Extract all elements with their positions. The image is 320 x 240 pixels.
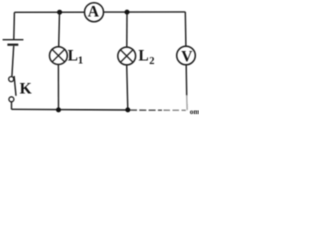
- svg-text:1: 1: [78, 56, 83, 67]
- svg-text:2: 2: [149, 56, 154, 67]
- wire right vertical upper (corner to voltmeter): [184, 12, 187, 46]
- wire L2 branch lower: [127, 65, 128, 110]
- wire L2 branch upper: [126, 12, 128, 47]
- svg-text:L: L: [138, 48, 148, 65]
- node top junction L1: [57, 10, 62, 15]
- svg-text:L: L: [68, 48, 78, 65]
- lamp L2 cross: [121, 50, 133, 62]
- battery short plate (-): [7, 44, 18, 46]
- node bottom junction L2: [125, 107, 130, 112]
- lamp L2 circle: [118, 47, 136, 65]
- wire battery to switch: [12, 46, 14, 77]
- wire faded bottom-right corner: [186, 104, 188, 110]
- switch K lower terminal circle: [9, 97, 14, 102]
- lamp L1 cross: [52, 49, 64, 61]
- wire faded right lower segment: [186, 95, 188, 110]
- voltmeter U2 circle: [177, 46, 196, 65]
- svg-text:om: om: [190, 107, 199, 116]
- wire voltmeter to bottom, fading: [185, 65, 188, 96]
- wire L1 branch upper: [58, 12, 61, 47]
- svg-text:A: A: [88, 3, 100, 20]
- wire L1 branch lower: [57, 65, 59, 110]
- switch K upper terminal circle: [9, 77, 14, 82]
- node top junction L2: [125, 10, 130, 15]
- wire bottom rail solid segment: [12, 108, 130, 111]
- battery long plate (+): [3, 39, 24, 41]
- wire left vertical upper (corner to battery): [13, 12, 16, 39]
- svg-text:V: V: [181, 49, 193, 66]
- ammeter U1 circle: [85, 3, 104, 22]
- wire top rail right segment: [103, 11, 185, 13]
- wire bottom rail faded dashed segment: [130, 109, 162, 111]
- switch K blade: [14, 76, 16, 96]
- wire switch to bottom-left corner: [11, 102, 13, 110]
- node bottom junction L1: [56, 107, 61, 112]
- wire bottom rail faded dashed segment right part: [164, 109, 186, 111]
- svg-text:K: K: [20, 81, 32, 98]
- wire top rail left segment: [14, 11, 84, 13]
- lamp L1 circle: [50, 47, 68, 65]
